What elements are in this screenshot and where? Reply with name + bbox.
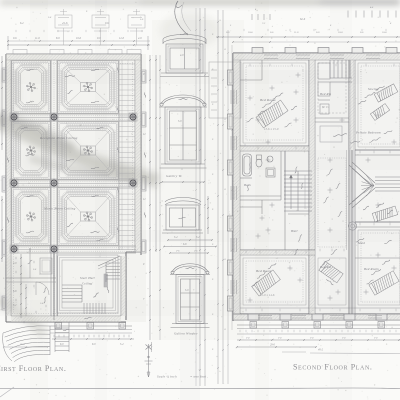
middle: panel rectangle (209, 62, 241, 118)
left plan: interior beam grid (11, 60, 136, 316)
right plan: room annotation squiggles (262, 100, 274, 107)
right plan: top dimension string (216, 6, 400, 43)
middle: long vertical dimension strings (195, 8, 232, 386)
right plan: room inner trim outlines (243, 63, 400, 305)
left plan: bottom-left dim line (4, 346, 48, 348)
right plan: outer walls (233, 53, 400, 321)
right plan: beds and furniture (256, 100, 288, 128)
right plan: interior wall H1 (240, 146, 309, 151)
left plan: columns (10, 113, 138, 254)
north arrow (145, 344, 153, 377)
middle: window detail W4 (tall) (170, 264, 210, 328)
svg-text:11-0: 11-0 (294, 31, 299, 34)
right plan: wall poche (233, 53, 400, 60)
right plan: interior walls right rooms (355, 150, 400, 258)
svg-text:10-6: 10-6 (76, 37, 82, 40)
left plan: wall pilasters (2, 50, 146, 311)
middle: window detail W2 (159, 95, 207, 168)
left plan: straight entrance steps (55, 322, 69, 352)
middle: dimension rows between details (163, 236, 217, 254)
left plan: right joist strip (119, 60, 135, 250)
sheet corner mark (0, 387, 14, 397)
right plan: upper small stair (330, 60, 352, 82)
right plan: interior wall V1 (309, 60, 315, 314)
left plan: curved entrance stair fan (3, 326, 50, 362)
svg-text:62-6: 62-6 (300, 18, 306, 21)
right plan: wall pilasters (228, 48, 398, 321)
right plan: interior wall V2 (347, 60, 356, 314)
left plan: porch edge and bases (50, 323, 134, 347)
svg-text:12-0: 12-0 (119, 37, 125, 40)
left plan: vestibule rooms (6, 248, 56, 318)
left plan: top small chimney details (55, 9, 145, 45)
right plan: top middle closets (315, 63, 349, 142)
left plan: right-side dimension strings (143, 55, 161, 340)
middle: window detail W1 (160, 35, 209, 77)
right plan: window openings left wall (231, 90, 237, 294)
right plan: wall circle at bay junction (348, 222, 356, 230)
right plan: main staircase (284, 171, 312, 211)
left plan: top dimension string (7, 21, 150, 50)
sheet edge line (0, 387, 400, 390)
right plan: bottom porch (236, 322, 400, 352)
left plan: right-side leader tick (151, 342, 152, 352)
right plan: bathroom partitions and fixtures (240, 151, 285, 214)
svg-text:10-6: 10-6 (248, 31, 253, 34)
left plan: perimeter dentil courses (12, 63, 135, 65)
svg-text:20-0: 20-0 (20, 343, 25, 346)
left plan: coffered ceiling cells (12, 61, 118, 245)
extra annotation squiggles left plan (27, 69, 34, 71)
left plan: stair hall annex (57, 255, 120, 314)
right plan: interior wall H2 (240, 250, 315, 255)
svg-text:41-6: 41-6 (62, 21, 68, 25)
vestibule extra marks (15, 257, 17, 259)
right plan: window openings top and bottom walls (258, 55, 382, 318)
left plan: wall poche hatching (6, 54, 141, 60)
svg-text:40-2: 40-2 (318, 349, 324, 352)
svg-text:20-0: 20-0 (270, 344, 275, 347)
right plan: bay window chevrons (349, 162, 400, 208)
right plan: hall partitions (240, 60, 309, 250)
middle: leader curl line (175, 1, 188, 35)
left plan: left-edge dimension marks (1, 56, 3, 262)
middle: window detail W3 (162, 198, 203, 234)
svg-text:Scale ¼ inch: Scale ¼ inch (157, 375, 177, 379)
right plan: interior dimension crosses (248, 73, 397, 303)
svg-text:10-6: 10-6 (382, 31, 387, 34)
left plan: outer walls (6, 54, 141, 322)
extra tick clusters right plan (245, 64, 396, 312)
